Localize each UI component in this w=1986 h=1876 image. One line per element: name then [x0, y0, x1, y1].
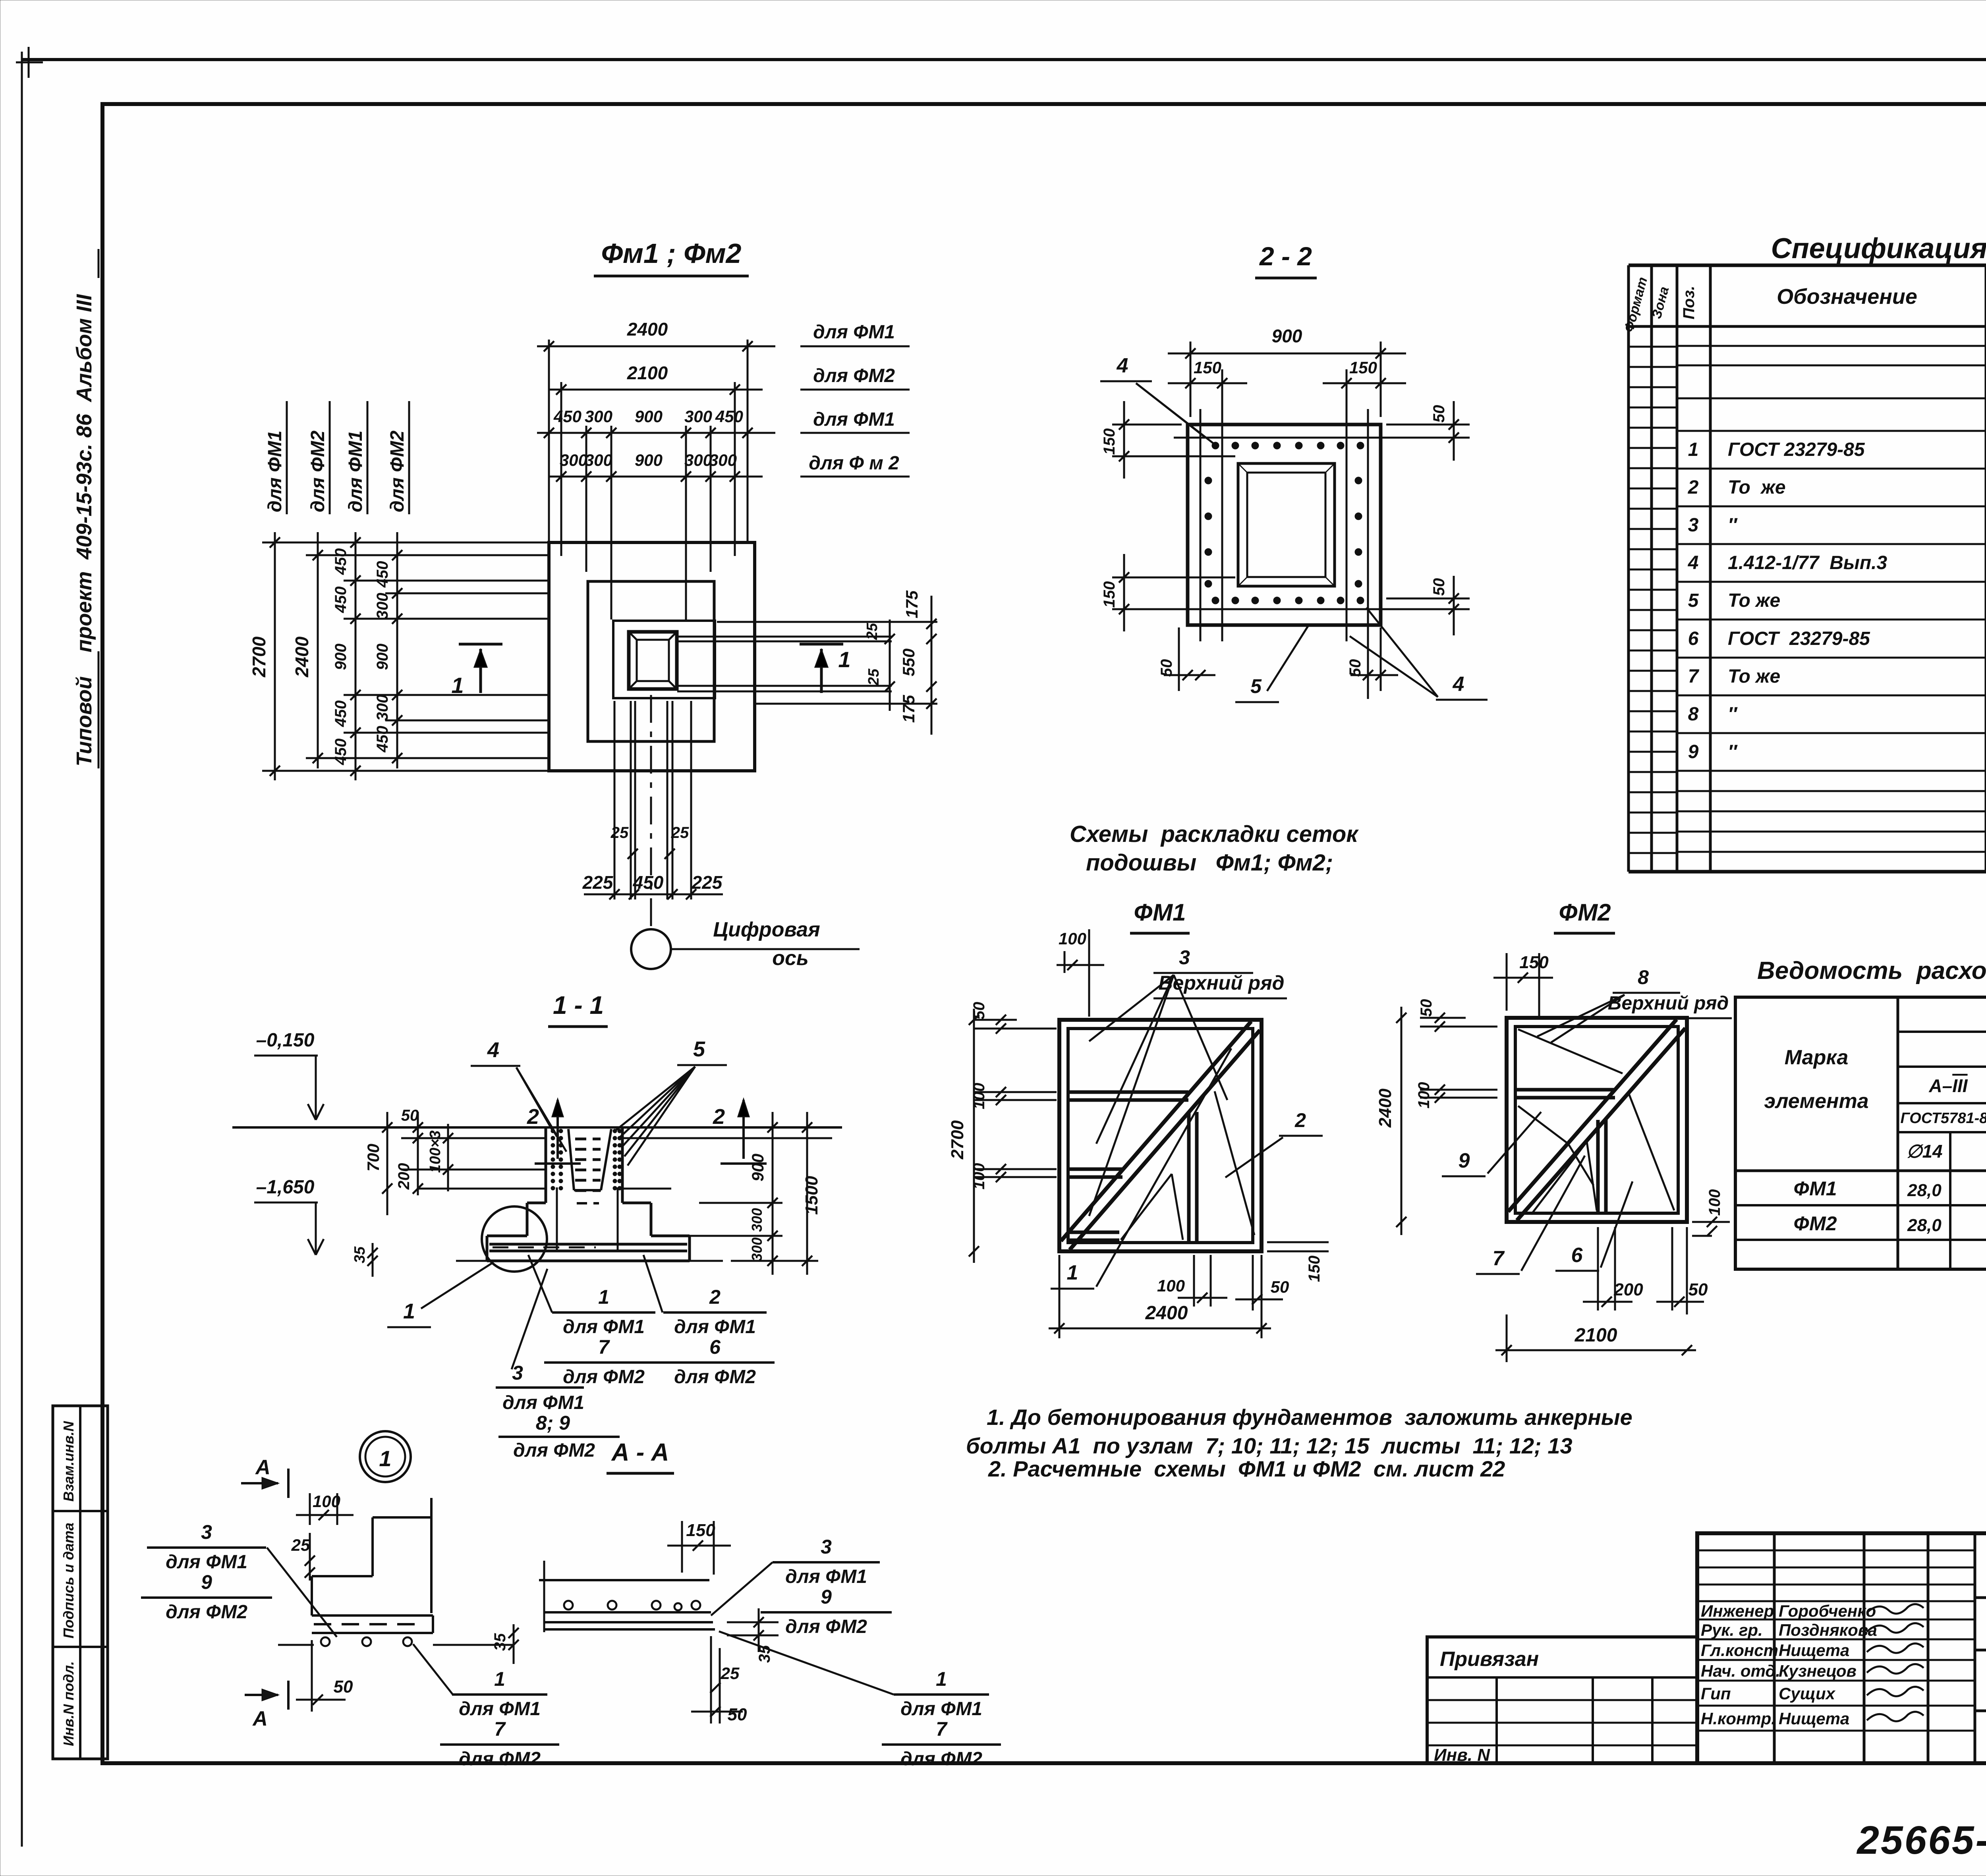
- spec table grid frame: [1629, 265, 1986, 872]
- svg-text:2700: 2700: [948, 1120, 967, 1160]
- svg-text:Инженер: Инженер: [1701, 1602, 1774, 1620]
- A-A label 3-9 right: [711, 1536, 892, 1637]
- svg-text:900: 900: [374, 644, 391, 670]
- svg-text:8; 9: 8; 9: [536, 1412, 570, 1434]
- svg-text:50: 50: [1418, 999, 1435, 1017]
- svg-text:3: 3: [1179, 946, 1190, 969]
- svg-text:ФМ1: ФМ1: [1793, 1177, 1837, 1200]
- 1-1 anchor template dashes: [575, 1139, 601, 1203]
- svg-text:5: 5: [1250, 675, 1262, 697]
- svg-text:для ФМ2: для ФМ2: [387, 430, 408, 512]
- section mark A top: [241, 1456, 288, 1498]
- section 1-1 title: [548, 991, 608, 1027]
- svg-text:9: 9: [201, 1571, 212, 1593]
- spec position and designation texts: [1688, 439, 1887, 762]
- 1-1 column outline: [546, 1127, 622, 1203]
- svg-text:6: 6: [1688, 628, 1699, 649]
- svg-text:Фм1 ; Фм2: Фм1 ; Фм2: [601, 238, 742, 269]
- svg-text:Инв.N подл.: Инв.N подл.: [60, 1661, 77, 1746]
- svg-text:ФМ1: ФМ1: [1134, 899, 1186, 926]
- svg-text:ГОСТ 23279-85: ГОСТ 23279-85: [1728, 439, 1865, 460]
- svg-text:для ФМ1: для ФМ1: [900, 1698, 982, 1720]
- mesh FM2 leaders8: [1537, 966, 1732, 1072]
- svg-text:2100: 2100: [627, 363, 668, 383]
- spec item row lines: [1677, 346, 1986, 852]
- 2-2 dim 900: [1168, 326, 1406, 417]
- plan bottom dim chain: [582, 701, 723, 899]
- sheet edge left: [21, 52, 23, 1847]
- svg-text:Гл.конст: Гл.конст: [1701, 1641, 1778, 1660]
- svg-text:для ФМ2: для ФМ2: [513, 1440, 595, 1461]
- svg-text:7: 7: [1688, 666, 1700, 687]
- svg-text:300: 300: [749, 1208, 765, 1232]
- svg-text:4: 4: [1117, 354, 1128, 377]
- svg-text:150: 150: [686, 1521, 715, 1540]
- svg-text:Типовой проект 409-15-93с.: Типовой проект 409-15-93с. 86 Альбом III: [72, 294, 96, 766]
- mesh FM1 label1: [1051, 1048, 1231, 1289]
- mesh FM2 label6: [1555, 1181, 1632, 1271]
- svg-text:28,0: 28,0: [1907, 1181, 1942, 1200]
- svg-text:50: 50: [1430, 405, 1448, 423]
- svg-text:7: 7: [1493, 1247, 1505, 1270]
- svg-text:Поз.: Поз.: [1680, 286, 1698, 320]
- svg-text:35: 35: [491, 1633, 509, 1651]
- A-A left detail wall: [312, 1498, 431, 1615]
- svg-text:2: 2: [1688, 477, 1699, 498]
- svg-text:для ФМ2: для ФМ2: [459, 1749, 541, 1770]
- spec header texts: [1621, 276, 1986, 334]
- svg-text:50: 50: [1347, 659, 1364, 677]
- svg-text:5: 5: [693, 1037, 705, 1061]
- 1-1 right dims: [352, 1112, 821, 1277]
- svg-text:Кузнецов: Кузнецов: [1779, 1662, 1857, 1680]
- svg-text:2 - 2: 2 - 2: [1259, 241, 1312, 271]
- svg-text:элемента: элемента: [1764, 1090, 1868, 1113]
- svg-text:2. Расчетные схемы ФМ1 и ФМ2: 2. Расчетные схемы ФМ1 и ФМ2 см. лист 22: [988, 1456, 1505, 1481]
- svg-text:2: 2: [709, 1286, 721, 1308]
- elevation mark -1.650: [254, 1177, 324, 1255]
- svg-text:300: 300: [684, 407, 712, 426]
- left margin project label: [72, 249, 99, 768]
- mesh FM2 label7: [1476, 1156, 1585, 1274]
- svg-text:3: 3: [201, 1521, 212, 1543]
- svg-text:для ФМ2: для ФМ2: [674, 1366, 756, 1388]
- svg-text:∅14: ∅14: [1906, 1141, 1942, 1162]
- svg-text:25665-03 18: 25665-03 18: [1856, 1818, 1986, 1862]
- svg-text:1: 1: [451, 673, 464, 698]
- svg-text:Позднякова: Позднякова: [1779, 1621, 1877, 1639]
- svg-text:Нищета: Нищета: [1779, 1641, 1849, 1660]
- svg-text:1: 1: [379, 1446, 391, 1471]
- svg-text:для ФМ1: для ФМ1: [785, 1566, 867, 1587]
- svg-text:для ФМ1: для ФМ1: [502, 1392, 584, 1413]
- svg-text:175: 175: [899, 695, 918, 723]
- svg-text:2400: 2400: [1376, 1089, 1395, 1128]
- svg-text:для ФМ2: для ФМ2: [900, 1749, 982, 1770]
- mesh FM1 title: [1130, 899, 1190, 933]
- svg-text:для ФМ2: для ФМ2: [307, 430, 328, 512]
- svg-text:для ФМ2: для ФМ2: [813, 365, 895, 386]
- svg-text:450: 450: [374, 561, 391, 588]
- svg-text:для ФМ1: для ФМ1: [563, 1316, 645, 1338]
- sheet top rule: [22, 58, 1986, 61]
- svg-text:9: 9: [1688, 741, 1699, 762]
- spec table title: [1771, 233, 1986, 264]
- A-A left detail slab: [278, 1615, 514, 1646]
- svg-text:35: 35: [352, 1246, 368, 1263]
- 1-1 slab rebar: [489, 1244, 687, 1251]
- 1-1 label 4: [471, 1038, 566, 1152]
- svg-text:То же: То же: [1728, 590, 1780, 611]
- svg-text:2400: 2400: [292, 636, 312, 677]
- 1-1 upper lines: [401, 1138, 832, 1189]
- svg-text:50: 50: [728, 1705, 747, 1724]
- svg-text:25: 25: [610, 824, 629, 841]
- svg-text:900: 900: [635, 407, 663, 426]
- svg-text:″: ″: [1728, 515, 1738, 536]
- svg-text:2400: 2400: [627, 319, 668, 340]
- svg-text:300: 300: [374, 593, 391, 620]
- svg-text:150: 150: [1101, 581, 1118, 608]
- mesh schemes heading: [1070, 821, 1359, 876]
- svg-text:550: 550: [899, 648, 918, 676]
- svg-text:175: 175: [902, 590, 921, 618]
- svg-text:50: 50: [1271, 1278, 1289, 1296]
- svg-text:3: 3: [1688, 515, 1699, 536]
- svg-text:А–III: А–III: [1928, 1075, 1968, 1096]
- svg-text:Н.контр.: Н.контр.: [1701, 1709, 1776, 1728]
- svg-text:Обозначение: Обозначение: [1777, 285, 1917, 309]
- svg-text:1: 1: [838, 647, 850, 672]
- svg-text:900: 900: [332, 644, 350, 670]
- mesh FM1 dims: [948, 929, 1329, 1338]
- privyazan block: [1427, 1637, 1697, 1765]
- A-A right detail dims: [667, 1521, 779, 1724]
- svg-text:А - А: А - А: [611, 1439, 669, 1466]
- svg-text:Горобченко: Горобченко: [1779, 1602, 1876, 1620]
- svg-text:1: 1: [403, 1299, 415, 1323]
- svg-text:200: 200: [1613, 1280, 1643, 1299]
- svg-text:1: 1: [1688, 439, 1699, 460]
- svg-text:Спецификация ФМ1 и ФМ2: Спецификация ФМ1 и ФМ2: [1771, 233, 1986, 264]
- A-A right detail slab: [539, 1561, 715, 1632]
- section 2-2 title: [1255, 241, 1317, 278]
- svg-text:450: 450: [553, 407, 582, 426]
- mesh FM1 cell diagonals: [1121, 1091, 1254, 1240]
- vedomost data rows: [1793, 1177, 1986, 1236]
- svg-text:2100: 2100: [1575, 1325, 1617, 1346]
- vedomost title: [1757, 957, 1986, 984]
- node circle 1 big: [360, 1431, 411, 1482]
- 1-1 mesh label 1-7: [528, 1255, 663, 1388]
- svg-text:То же: То же: [1728, 477, 1786, 498]
- svg-text:Рук. гр.: Рук. гр.: [1701, 1621, 1763, 1639]
- mesh FM1 label2: [1225, 1109, 1323, 1177]
- 1-1 node circle: [387, 1206, 547, 1327]
- svg-text:Схемы раскладки сеток: Схемы раскладки сеток: [1070, 821, 1359, 847]
- 1-1 mesh label 2-6: [643, 1255, 775, 1388]
- svg-text:″: ″: [1728, 741, 1738, 762]
- svg-text:900: 900: [748, 1154, 767, 1181]
- svg-text:450: 450: [332, 587, 350, 614]
- title block object name: [1975, 1602, 1986, 1650]
- svg-text:Подпись и дата: Подпись и дата: [60, 1523, 77, 1639]
- registration tick top-left: [16, 47, 43, 78]
- svg-text:300: 300: [585, 407, 612, 426]
- A-A left detail dims: [291, 1492, 519, 1712]
- svg-text:1500: 1500: [802, 1176, 821, 1215]
- svg-text:1. До бетонирования фундаменто: 1. До бетонирования фундаментов заложить…: [987, 1405, 1632, 1430]
- svg-text:9: 9: [1459, 1149, 1470, 1172]
- svg-text:1: 1: [494, 1668, 505, 1690]
- svg-text:8: 8: [1638, 966, 1649, 988]
- 2-2 label 4 bottom-right: [1350, 608, 1488, 700]
- svg-text:ось: ось: [772, 947, 809, 970]
- svg-text:для ФМ2: для ФМ2: [166, 1602, 247, 1623]
- svg-text:50: 50: [1430, 578, 1448, 596]
- 2-2 left dims 150: [1101, 401, 1235, 631]
- 2-2 label 5: [1235, 624, 1309, 702]
- notes text: [966, 1405, 1632, 1481]
- svg-text:900: 900: [635, 451, 663, 469]
- plan pedestal outline: [613, 621, 715, 698]
- plan anchor box: [629, 632, 677, 689]
- svg-text:2400: 2400: [1145, 1303, 1188, 1324]
- 1-1 anchor bolts: [551, 1129, 622, 1251]
- svg-text:300: 300: [560, 451, 587, 469]
- svg-text:100: 100: [1157, 1276, 1185, 1295]
- plan middle footing step: [588, 581, 714, 741]
- svg-text:150: 150: [1306, 1256, 1323, 1282]
- 2-2 pedestal bevel: [1238, 463, 1335, 586]
- 2-2 footing outline: [1188, 425, 1381, 625]
- spec narrow column row lines: [1629, 347, 1986, 853]
- svg-text:Верхний ряд: Верхний ряд: [1608, 993, 1729, 1014]
- svg-text:2: 2: [1294, 1109, 1306, 1131]
- svg-text:″: ″: [1728, 704, 1738, 725]
- svg-text:200: 200: [395, 1163, 413, 1190]
- mesh FM1 leaders3: [1089, 946, 1287, 1216]
- svg-text:450: 450: [715, 407, 743, 426]
- svg-text:150: 150: [1101, 428, 1118, 455]
- svg-text:ГОСТ 23279-85: ГОСТ 23279-85: [1728, 628, 1870, 649]
- svg-text:2700: 2700: [249, 636, 269, 677]
- svg-text:5: 5: [1688, 590, 1699, 611]
- svg-text:25: 25: [721, 1664, 740, 1683]
- svg-text:9: 9: [821, 1586, 832, 1608]
- svg-text:Гип: Гип: [1701, 1684, 1731, 1703]
- svg-text:150: 150: [1349, 358, 1377, 377]
- svg-text:100: 100: [1706, 1189, 1723, 1216]
- svg-text:300: 300: [374, 695, 391, 721]
- svg-text:Сущих: Сущих: [1779, 1684, 1836, 1703]
- A-A label 1-7 left: [413, 1644, 559, 1770]
- plan section mark 1 right: [800, 644, 851, 693]
- svg-text:1: 1: [598, 1286, 609, 1308]
- 2-2 bottom dims 50: [1158, 627, 1398, 699]
- 1-1 footing steps: [456, 1203, 723, 1261]
- archive number text: [1856, 1818, 1986, 1862]
- svg-text:8: 8: [1688, 704, 1699, 725]
- svg-text:450: 450: [332, 739, 350, 766]
- svg-text:для ФМ2: для ФМ2: [563, 1366, 645, 1388]
- svg-text:для ФМ2: для ФМ2: [785, 1616, 867, 1637]
- vedomost grid: [1735, 997, 1986, 1269]
- svg-text:Взам.инв.N: Взам.инв.N: [60, 1421, 77, 1502]
- plan left dimension chains: [249, 401, 409, 780]
- svg-text:ФМ2: ФМ2: [1559, 899, 1611, 926]
- svg-text:–0,150: –0,150: [256, 1030, 315, 1051]
- vedomost header texts: [1764, 1002, 1986, 1162]
- mesh FM2 dims: [1376, 953, 1730, 1362]
- title block sheet name: [1975, 1650, 1986, 1763]
- svg-text:50: 50: [401, 1107, 419, 1124]
- svg-text:50: 50: [1688, 1280, 1708, 1299]
- A-A label 3-9 left: [141, 1521, 337, 1637]
- svg-text:ФМ2: ФМ2: [1793, 1212, 1837, 1235]
- svg-text:28,0: 28,0: [1907, 1216, 1942, 1235]
- svg-text:Нищета: Нищета: [1779, 1709, 1849, 1728]
- svg-text:подошвы Фм1; Фм2;: подошвы Фм1; Фм2;: [1086, 850, 1333, 876]
- svg-text:для Ф м 2: для Ф м 2: [809, 453, 899, 474]
- svg-text:150: 150: [1194, 358, 1221, 377]
- svg-text:225: 225: [582, 872, 614, 893]
- svg-text:для ФМ1: для ФМ1: [813, 409, 895, 430]
- 1-1 label 5: [615, 1037, 727, 1166]
- svg-text:25: 25: [865, 668, 882, 686]
- svg-text:7: 7: [598, 1336, 610, 1358]
- svg-text:Привязан: Привязан: [1440, 1648, 1539, 1671]
- title block signature grid: [1697, 1533, 1975, 1763]
- svg-text:1.412-1/77 Вып.3: 1.412-1/77 Вып.3: [1728, 552, 1887, 573]
- svg-text:для ФМ1: для ФМ1: [674, 1316, 756, 1338]
- svg-text:7: 7: [494, 1718, 506, 1740]
- plan left extension lines: [262, 542, 549, 771]
- plan top dimension chains: [537, 319, 910, 482]
- elevation mark -0.150: [254, 1030, 324, 1120]
- svg-text:900: 900: [1272, 326, 1302, 346]
- svg-text:Цифровая: Цифровая: [713, 918, 820, 941]
- svg-text:300: 300: [585, 451, 612, 469]
- digital axis symbol: [631, 695, 860, 970]
- title block signatures: [1701, 1602, 1924, 1728]
- 1-1 anchor pocket: [568, 1129, 611, 1190]
- svg-text:болты А1 по узлам 7; 10; 11;: болты А1 по узлам 7; 10; 11; 12; 15 лист…: [966, 1433, 1573, 1458]
- plan section mark 1 left: [451, 644, 502, 698]
- svg-text:Ведомость расхода стали на: Ведомость расхода стали на один элемент,…: [1757, 957, 1986, 984]
- plan outer footing 2400x2700: [549, 542, 755, 771]
- left stamp column table: [53, 1406, 108, 1759]
- svg-text:А: А: [252, 1707, 268, 1730]
- svg-text:1: 1: [1067, 1261, 1078, 1284]
- svg-text:для ФМ1: для ФМ1: [345, 430, 366, 512]
- section A-A title: [607, 1439, 674, 1473]
- svg-text:4: 4: [487, 1038, 499, 1062]
- svg-text:Марка: Марка: [1785, 1046, 1849, 1069]
- svg-text:50: 50: [1158, 659, 1175, 677]
- svg-text:50: 50: [334, 1677, 353, 1697]
- svg-text:2: 2: [527, 1105, 539, 1129]
- svg-text:300: 300: [684, 451, 712, 469]
- svg-text:–1,650: –1,650: [256, 1177, 315, 1198]
- svg-text:для ФМ1: для ФМ1: [166, 1552, 247, 1573]
- svg-text:700: 700: [364, 1144, 383, 1172]
- plan right small dims: [677, 590, 937, 735]
- 1-1 section mark 2 right: [713, 1099, 767, 1164]
- svg-text:6: 6: [709, 1336, 721, 1358]
- 1-1 mesh label 3-89: [496, 1269, 620, 1461]
- plan title Фм1;Фм2: [594, 238, 749, 276]
- spec group headings and quantities: [1986, 370, 1986, 836]
- svg-text:25: 25: [864, 623, 881, 640]
- 2-2 label 4 top-left: [1100, 354, 1216, 446]
- 2-2 rebar mesh: [1174, 409, 1396, 641]
- svg-text:100: 100: [1415, 1082, 1433, 1109]
- svg-text:3: 3: [821, 1536, 832, 1558]
- svg-text:7: 7: [936, 1718, 948, 1740]
- svg-text:25: 25: [291, 1536, 310, 1554]
- svg-text:100: 100: [1059, 929, 1086, 948]
- svg-text:150: 150: [1519, 953, 1549, 972]
- 2-2 dims 150: [1168, 358, 1406, 469]
- 1-1 ground line: [232, 1126, 842, 1129]
- svg-text:6: 6: [1571, 1244, 1583, 1267]
- plan top extension lines: [549, 340, 748, 620]
- svg-text:4: 4: [1453, 673, 1464, 696]
- A-A label 1-7 right: [719, 1631, 1001, 1770]
- svg-text:100×3: 100×3: [427, 1131, 444, 1173]
- mesh FM1 grid: [1059, 1020, 1262, 1251]
- svg-text:450: 450: [332, 548, 350, 575]
- section mark A bottom: [245, 1681, 288, 1730]
- svg-text:2: 2: [713, 1105, 725, 1129]
- svg-text:для ФМ1: для ФМ1: [813, 322, 895, 343]
- svg-text:Инв. N: Инв. N: [1434, 1745, 1490, 1765]
- mesh FM2 thin diagonals: [1518, 1029, 1674, 1214]
- svg-text:450: 450: [374, 726, 391, 753]
- svg-text:ГОСТ5781-82: ГОСТ5781-82: [1900, 1110, 1986, 1127]
- svg-text:25: 25: [671, 824, 689, 841]
- svg-text:1: 1: [936, 1668, 947, 1690]
- svg-text:А: А: [255, 1456, 270, 1479]
- title block outer frame: [1697, 1533, 1986, 1763]
- svg-text:для ФМ1: для ФМ1: [459, 1698, 541, 1720]
- 2-2 right dims 50: [1386, 401, 1470, 635]
- svg-text:4: 4: [1688, 552, 1699, 573]
- svg-text:Нач. отд.: Нач. отд.: [1701, 1662, 1780, 1680]
- title block doc number cell: [1975, 1558, 1986, 1598]
- svg-text:300: 300: [709, 451, 737, 469]
- svg-text:450: 450: [332, 701, 350, 728]
- svg-text:1 - 1: 1 - 1: [553, 991, 604, 1019]
- 1-1 section mark 2 left: [527, 1099, 581, 1164]
- svg-text:300: 300: [749, 1237, 765, 1261]
- svg-text:для ФМ1: для ФМ1: [265, 430, 286, 512]
- mesh FM2 title: [1554, 899, 1615, 933]
- 1-1 left dims: [364, 1107, 453, 1215]
- mesh FM2 label9: [1442, 1112, 1541, 1176]
- svg-text:То же: То же: [1728, 666, 1780, 687]
- mesh FM2 grid: [1507, 1018, 1687, 1222]
